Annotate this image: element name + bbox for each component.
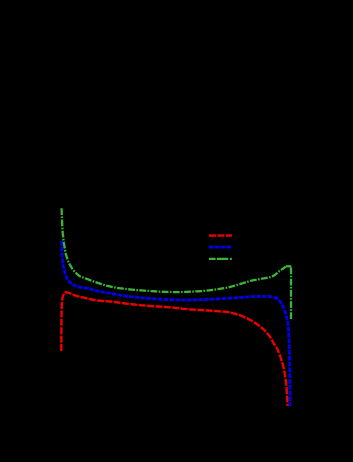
legend red dashed sample <box>209 234 232 236</box>
green dash-dot curve <box>62 208 286 292</box>
red dashed curve <box>61 292 287 406</box>
blue dashed curve <box>62 241 290 406</box>
legend green dash-dot sample <box>209 258 232 260</box>
legend blue dashed sample <box>209 246 232 249</box>
green right-edge vertical drop <box>290 268 292 320</box>
green peak top dash <box>286 265 291 267</box>
